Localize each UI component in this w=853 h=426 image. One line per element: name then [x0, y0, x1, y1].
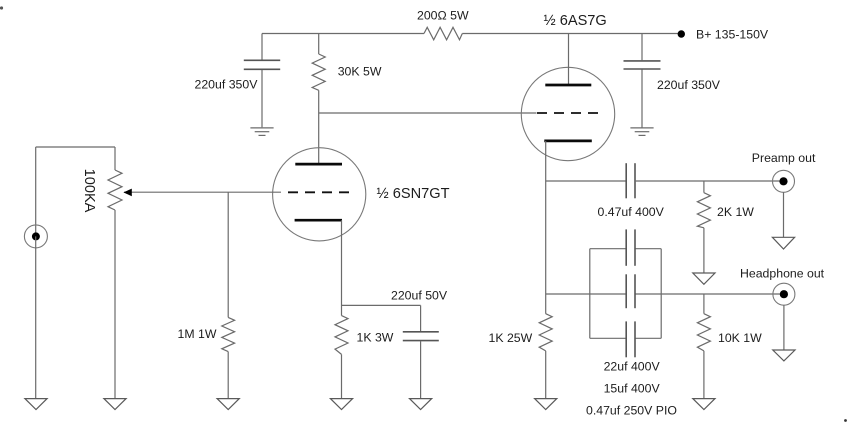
- svg-text:100KA: 100KA: [81, 169, 97, 213]
- ground 1M: [217, 399, 239, 410]
- wire preamp jack bottom lead: [783, 192, 785, 237]
- svg-text:200Ω 5W: 200Ω 5W: [417, 9, 469, 23]
- capacitor bank box: [590, 249, 661, 339]
- resistor 30K 5W: [312, 54, 325, 90]
- resistor 1M 1W: [222, 317, 235, 351]
- wire headphone jack bottom lead: [783, 305, 785, 350]
- svg-text:15uf 400V: 15uf 400V: [604, 381, 661, 395]
- svg-text:1K 3W: 1K 3W: [357, 330, 394, 344]
- wire 10K bottom lead: [703, 351, 705, 399]
- wire 30K top lead: [318, 34, 320, 55]
- wire 30K bottom to 6SN7 plate: [318, 90, 320, 164]
- grid dashes U1: [288, 191, 350, 193]
- capacitor C4 0.47uf 400V: [626, 163, 635, 198]
- wire 2K top lead: [703, 181, 705, 193]
- capacitor C3 220uf 50V: [403, 332, 439, 341]
- wire U2 cathode lead down: [545, 141, 547, 314]
- svg-text:½ 6AS7G: ½ 6AS7G: [544, 13, 607, 29]
- svg-text:B+ 135-150V: B+ 135-150V: [696, 27, 769, 41]
- wire 10K top lead: [703, 294, 705, 314]
- ground left: [250, 128, 273, 135]
- tube U2 ½ 6AS7G: [521, 34, 614, 161]
- wire input top rail: [36, 146, 115, 148]
- wire 1K25W bottom lead: [545, 351, 547, 399]
- ground preamp jack: [772, 237, 794, 249]
- ground headphone jack: [773, 350, 795, 361]
- ground C3: [410, 399, 432, 410]
- wire preamp line left: [546, 180, 626, 182]
- ground 1K3W: [330, 399, 352, 410]
- jack J1 input: [24, 225, 47, 248]
- potentiometer 100KA: [108, 170, 122, 210]
- wire junction to 6AS7G grid: [319, 112, 537, 114]
- cathode bar U1: [295, 219, 342, 222]
- grid dashes U2: [537, 112, 598, 114]
- wire 1M top lead: [227, 192, 229, 317]
- svg-text:½ 6SN7GT: ½ 6SN7GT: [377, 186, 450, 202]
- node B+: [678, 30, 685, 37]
- capacitor bank cap middle: [626, 274, 635, 308]
- svg-text:1M 1W: 1M 1W: [178, 327, 217, 341]
- wire pot top lead: [114, 147, 116, 170]
- resistor 10K 1W: [697, 314, 710, 351]
- svg-text:30K 5W: 30K 5W: [338, 64, 382, 78]
- svg-text:220uf 50V: 220uf 50V: [391, 288, 448, 302]
- svg-text:22uf 400V: 22uf 400V: [604, 360, 661, 374]
- period mark bottom right: [844, 419, 847, 422]
- resistor 200Ω 5W: [424, 27, 462, 40]
- ground input: [25, 399, 47, 410]
- jack J2 Preamp out: [773, 170, 795, 192]
- capacitor bank cap bottom: [626, 321, 635, 357]
- wire preamp line right: [635, 180, 784, 182]
- artifact dot top-left: [0, 6, 3, 9]
- wire top rail right segment: [462, 33, 681, 35]
- resistor 1K 25W: [539, 314, 552, 351]
- wire headphone line right: [635, 293, 784, 295]
- svg-text:0.47uf 400V: 0.47uf 400V: [598, 205, 665, 219]
- wire input jack bottom lead: [35, 236, 37, 398]
- svg-text:220uf 350V: 220uf 350V: [657, 78, 721, 92]
- wire left cap top lead: [261, 34, 263, 60]
- wire C3 top lead: [420, 305, 422, 331]
- wire right cap bottom lead: [641, 70, 643, 128]
- wire 1K3W bottom lead: [341, 354, 343, 398]
- tube U1 ½ 6SN7GT: [273, 148, 366, 241]
- wire headphone line left: [546, 293, 626, 295]
- svg-text:Headphone out: Headphone out: [740, 266, 825, 280]
- wire 1M bottom lead: [227, 352, 229, 399]
- capacitor bank cap top: [626, 229, 635, 265]
- wire top rail left segment: [262, 33, 424, 35]
- wire U1 cathode lead: [341, 220, 343, 315]
- jack J3 Headphone out: [773, 283, 795, 305]
- resistor 2K 1W: [697, 193, 710, 228]
- plate bar U2: [545, 84, 591, 87]
- ground 1K25W: [535, 399, 557, 410]
- svg-text:2K 1W: 2K 1W: [717, 205, 754, 219]
- wire cathode to C3: [342, 304, 421, 306]
- plate bar U1: [295, 163, 342, 166]
- svg-text:Preamp out: Preamp out: [752, 151, 816, 165]
- wire input jack top lead: [35, 147, 37, 236]
- wire left cap bottom lead: [261, 70, 263, 127]
- cathode bar U2: [544, 140, 592, 143]
- wire grid of U1 to pot wiper: [124, 191, 281, 193]
- ground right: [630, 128, 653, 135]
- svg-text:1K 25W: 1K 25W: [489, 331, 533, 345]
- ground 10K: [693, 399, 715, 410]
- wire C3 bottom lead: [420, 341, 422, 398]
- ground 2K: [693, 273, 715, 284]
- ground pot: [104, 399, 126, 410]
- svg-text:10K 1W: 10K 1W: [718, 331, 762, 345]
- wire right cap top lead: [641, 34, 643, 61]
- resistor 1K 3W: [335, 316, 348, 355]
- svg-text:0.47uf 250V PIO: 0.47uf 250V PIO: [586, 403, 677, 417]
- wire pot bottom lead: [114, 210, 116, 398]
- svg-text:220uf 350V: 220uf 350V: [195, 78, 259, 92]
- capacitor C1 220uf 350V left: [244, 60, 280, 69]
- wire 2K bottom lead: [703, 228, 705, 273]
- wire 6AS7G plate lead: [568, 34, 570, 85]
- wiper arrowhead: [123, 189, 131, 197]
- capacitor C2 220uf 350V right: [624, 61, 661, 69]
